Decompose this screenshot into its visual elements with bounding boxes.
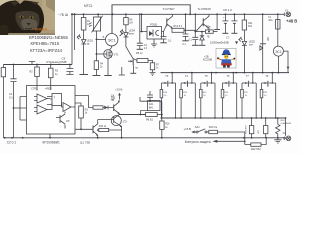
wire y31.6 [195, 31, 205, 33]
thermistor Rt [89, 14, 103, 61]
emitter bus [161, 117, 286, 119]
main top rail [71, 13, 283, 15]
capacitor C7b electrolytic [231, 14, 237, 33]
gate wire [96, 53, 104, 55]
resistor R5a (left column) [1, 65, 5, 138]
ground bar mid3 [119, 67, 125, 75]
resistor R16b [160, 111, 170, 138]
resistor R3 [75, 103, 88, 130]
ground bar under VT1 [104, 75, 112, 77]
svg-text:С2 0.1: С2 0.1 [7, 141, 17, 145]
555 internal wires [47, 99, 62, 108]
svg-text:ОР: ОР [66, 120, 70, 123]
svg-text:КР1006ВИ1: КР1006ВИ1 [43, 141, 60, 145]
pass transistor Т3 [161, 72, 176, 119]
node to comparator [96, 38, 98, 40]
svg-text:0.1: 0.1 [9, 95, 13, 99]
555 internal RS trigger [47, 94, 62, 110]
transistor Т2 [126, 44, 139, 73]
protection circle ЭС1b [273, 46, 289, 73]
svg-text:+48 В: +48 В [286, 18, 297, 23]
dots right rail2 [215, 72, 279, 74]
svg-text:Контроль защиты: Контроль защиты [185, 140, 212, 144]
svg-text:R12 5.1: R12 5.1 [174, 25, 183, 28]
driver transistor A [114, 100, 120, 114]
transistor Тк КТ8108 [198, 7, 212, 29]
capacitor C4 [137, 14, 148, 50]
svg-text:С7: С7 [226, 36, 230, 40]
wire bus to X2 [285, 118, 287, 136]
capacitor C7a electrolytic [222, 14, 228, 33]
svg-text:КРЕН8Б=7815: КРЕН8Б=7815 [31, 41, 60, 46]
resistor R2 top [30, 65, 40, 86]
resistor R33 base [75, 96, 114, 110]
ground bar mid1 [93, 75, 101, 77]
svg-text:ПВ: ПВ [135, 67, 139, 69]
gate resistor R15 [200, 83, 208, 119]
resistor R1 [48, 65, 58, 86]
ground symbol right [274, 138, 281, 143]
pass transistor Т5 [201, 72, 216, 119]
shunt R24 squiggle [276, 117, 291, 139]
wire input pair [72, 14, 75, 64]
wire Тк emitter drop [208, 28, 210, 31]
cartoon figure [216, 48, 236, 68]
LED2 [238, 37, 255, 73]
svg-text:R34 1к: R34 1к [99, 125, 107, 128]
feed arrow [191, 131, 194, 134]
svg-text:DA1: DA1 [149, 103, 154, 106]
gate resistor R19 [260, 83, 268, 119]
wire right col x262.7 [262, 14, 264, 45]
svg-text:С1: С1 [9, 92, 13, 96]
555 internal comparator 1 [34, 94, 47, 103]
svg-text:R18 470: R18 470 [245, 125, 247, 134]
gate resistor R14 [180, 83, 188, 119]
resistor R18 [245, 117, 253, 139]
gate resistor R16 [221, 83, 229, 119]
svg-text:1ТЗ: 1ТЗ [123, 121, 128, 123]
resistor R6 [124, 14, 133, 32]
555 discharge transistor [56, 112, 70, 129]
resistor R4 right [242, 14, 253, 41]
mid collector rail [161, 72, 290, 74]
svg-text:зел: зел [249, 43, 253, 46]
555 output buffer [62, 103, 76, 112]
svg-text:ЭС1: ЭС1 [108, 37, 117, 42]
svg-text:40А: 40А [268, 19, 273, 22]
pass transistor Т4 [181, 72, 196, 119]
resistor R7М [205, 27, 217, 34]
LED4 [120, 29, 136, 44]
wire col x217 [214, 13, 235, 29]
fuse F1 [268, 14, 280, 46]
pass transistor Т7 [242, 72, 257, 119]
svg-text:10000мкФх63В: 10000мкФх63В [210, 41, 229, 45]
svg-text:КС520В: КС520В [203, 59, 212, 62]
svg-text:С9: С9 [62, 57, 66, 61]
node dots top rail [71, 13, 279, 15]
svg-text:VT1: VT1 [114, 53, 119, 57]
LED1 [77, 34, 94, 45]
555 pin bottom [49, 134, 51, 138]
svg-text:+15 В: +15 В [184, 127, 192, 131]
zener VD2 [199, 32, 213, 62]
capacitor C3 [66, 65, 73, 75]
wire cap C6 column [189, 13, 199, 45]
node dots y64.5 [50, 64, 52, 66]
svg-text:желт: желт [129, 32, 135, 35]
output terminal X1 [283, 9, 291, 16]
svg-text:Т: Т [54, 96, 56, 100]
gate resistor R13 [160, 83, 168, 119]
pass transistor Тб [223, 72, 238, 119]
resistor R8 [146, 113, 162, 122]
svg-text:КТ723А=IRFZ44: КТ723А=IRFZ44 [30, 48, 63, 53]
pass transistor Т9 [262, 72, 277, 119]
+15V arrow connector [111, 88, 123, 101]
comparator circle ЭС1 [106, 33, 124, 46]
svg-text:SA1: SA1 [195, 125, 200, 129]
wire DA1 inputs [119, 114, 146, 116]
zener VD3 [260, 44, 266, 73]
svg-text:Тк КТ8108: Тк КТ8108 [198, 7, 212, 11]
resistor R23 [207, 126, 245, 144]
svg-text:R23 Ск: R23 Ск [209, 126, 218, 129]
dots bottom rail [4, 137, 267, 139]
wire opto to T1 base [162, 25, 167, 32]
svg-text:С8 1.0: С8 1.0 [223, 8, 232, 12]
resistor R19b [258, 117, 268, 138]
wire left bus y64.5 [3, 64, 72, 66]
resistor R5 [134, 52, 153, 63]
svg-text:1М: 1М [129, 22, 132, 25]
svg-text:КР1006ВИ1=NE555: КР1006ВИ1=NE555 [29, 35, 69, 40]
svg-text:Т1 КТ827: Т1 КТ827 [163, 7, 175, 11]
resistor R4b [94, 61, 104, 76]
svg-text:R7м: R7м [206, 27, 211, 29]
transistor T1 КТ827 [163, 7, 175, 29]
svg-text:ВН1: ВН1 [149, 107, 154, 110]
resistor R34 [97, 125, 122, 131]
svg-text:R7к(вывод)УМВ: R7к(вывод)УМВ [47, 60, 67, 64]
optocoupler РЭ1Б [140, 14, 162, 47]
svg-text:КИСКА: КИСКА [35, 28, 48, 32]
ground stub above wire [29, 62, 35, 65]
svg-text:+15 В: +15 В [115, 88, 123, 92]
resistor R7 [150, 63, 160, 76]
resistor R2b + LED column [81, 14, 90, 74]
svg-text:Т01: Т01 [111, 97, 116, 99]
switch SA1 [195, 125, 207, 133]
svg-text:кр.: кр. [87, 42, 90, 45]
diode VD1 [104, 106, 108, 110]
resistor R12 [172, 24, 203, 33]
ground bar under LED1 [80, 74, 89, 76]
svg-text:РЭ1Б: РЭ1Б [150, 23, 157, 27]
cat photo [0, 0, 55, 35]
transistor Q1 [75, 120, 98, 145]
555 pins left [13, 97, 27, 121]
svg-text:Б: Б [103, 35, 105, 39]
upper rail [112, 5, 190, 34]
capacitor C1 [9, 65, 17, 138]
output terminal X2 [283, 132, 291, 141]
svg-text:R5 1к: R5 1к [136, 52, 143, 55]
svg-text:Q1 73Б: Q1 73Б [80, 141, 90, 145]
svg-text:R16: R16 [165, 124, 170, 126]
polarity mark [235, 41, 238, 44]
svg-text:R8 Б1: R8 Б1 [146, 119, 154, 122]
wire to circle input [96, 39, 105, 41]
svg-text:МТС1: МТС1 [84, 4, 93, 8]
svg-text:ЭС1: ЭС1 [275, 50, 282, 54]
svg-text:R22 5б2: R22 5б2 [251, 147, 261, 151]
IC DA2 КР1006ВИ1 box [27, 86, 76, 145]
op-amp DA1 box [140, 91, 162, 111]
driver transistor B circled [98, 115, 128, 138]
svg-text:~7Б Ш: ~7Б Ш [58, 13, 68, 17]
svg-text:7Б: 7Б [207, 36, 210, 39]
555 internal comparator 2 [34, 105, 47, 114]
svg-text:ПВ: ПВ [111, 100, 115, 102]
capacitor C5b on T1 base [160, 32, 172, 43]
bottom ground rail [3, 137, 286, 139]
555 pins top [37, 86, 51, 91]
resistor R22 [245, 138, 266, 151]
capacitor C5 [182, 13, 188, 46]
MOSFET VT1 [104, 46, 119, 76]
svg-text:R41: R41 [248, 23, 253, 25]
gate resistor R17 [241, 83, 249, 119]
arrow контроль [212, 140, 217, 143]
